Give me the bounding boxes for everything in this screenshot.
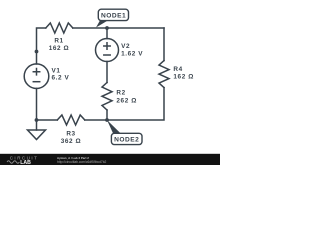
wire V2 top branch: [106, 28, 108, 39]
svg-text:R1: R1: [54, 37, 63, 44]
node dot left wire: [35, 50, 39, 54]
resistor R4: [159, 61, 169, 88]
wire R2 bottom: [106, 110, 108, 120]
wire left vertical (V1 top to top-left corner): [37, 28, 46, 64]
wire V1 bottom: [36, 88, 38, 120]
svg-text:NODE1: NODE1: [101, 13, 126, 20]
V2 plus sign: [104, 43, 110, 49]
svg-text:362 Ω: 362 Ω: [61, 138, 82, 145]
ground: [28, 130, 46, 140]
svg-text:http://circuitlab.com/c6df59bc: http://circuitlab.com/c6df59bcd7b2: [57, 160, 107, 164]
svg-text:V2: V2: [121, 43, 130, 50]
node NODE1 flag: [96, 9, 129, 27]
wire bottom left: [37, 119, 58, 121]
node dot NODE2 junction: [105, 118, 109, 122]
svg-text:1.62 V: 1.62 V: [121, 51, 143, 58]
node NODE2 flag: [107, 120, 142, 145]
svg-text:V1: V1: [52, 67, 61, 74]
node dot ground junction: [35, 118, 39, 122]
voltage source V2: [96, 39, 119, 62]
svg-text:R2: R2: [116, 90, 125, 97]
wire top (R1 to top-right corner): [73, 27, 164, 29]
svg-text:6.2 V: 6.2 V: [52, 75, 70, 82]
wire right vertical upper: [163, 28, 165, 61]
footer bar: [0, 154, 220, 166]
svg-text:LAB: LAB: [20, 160, 31, 165]
voltage source V1: [24, 64, 49, 89]
svg-text:162 Ω: 162 Ω: [173, 74, 194, 81]
ground stub wire: [36, 120, 38, 130]
wire right vertical lower + bottom right: [85, 88, 164, 120]
node dot top junction: [105, 26, 109, 30]
resistor R3: [57, 115, 85, 125]
wire V2 to R2: [106, 62, 108, 83]
svg-text:R4: R4: [173, 66, 182, 73]
resistor R1: [46, 23, 73, 33]
V2 minus sign: [104, 54, 110, 56]
V1 minus sign: [33, 81, 39, 83]
resistor R2: [102, 83, 112, 111]
svg-text:162 Ω: 162 Ω: [49, 45, 70, 52]
svg-text:262 Ω: 262 Ω: [116, 97, 137, 104]
svg-text:NODE2: NODE2: [114, 137, 139, 144]
svg-text:R3: R3: [66, 131, 75, 138]
V1 plus sign: [33, 69, 39, 75]
logo waveform: [7, 161, 19, 164]
